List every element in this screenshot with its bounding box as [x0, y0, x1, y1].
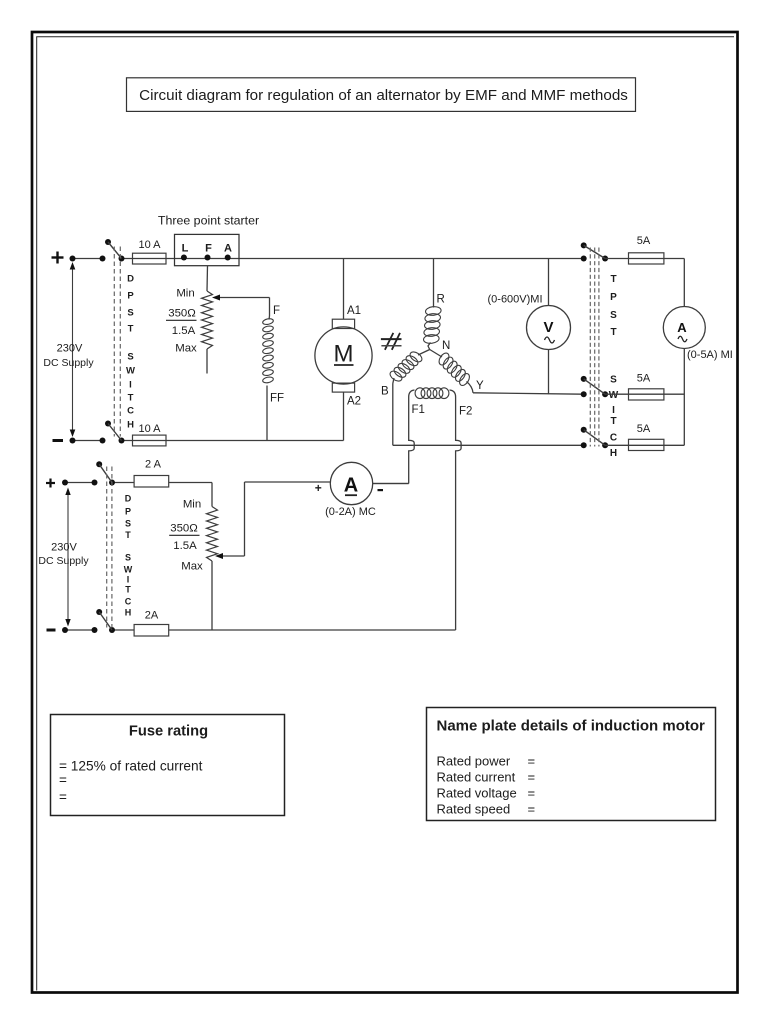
- svg-text:10 A: 10 A: [138, 239, 161, 251]
- svg-text:T: T: [610, 274, 616, 285]
- svg-text:(0-2A) MC: (0-2A) MC: [325, 506, 376, 518]
- svg-text:S: S: [125, 553, 131, 563]
- svg-text:W: W: [126, 366, 135, 377]
- svg-text:5A: 5A: [637, 373, 651, 385]
- svg-text:P: P: [610, 292, 617, 303]
- svg-text:W: W: [124, 565, 133, 575]
- svg-text:Rated speed: Rated speed: [437, 802, 511, 817]
- svg-text:Y: Y: [476, 380, 484, 392]
- svg-text:1.5A: 1.5A: [173, 540, 197, 552]
- svg-text:I: I: [127, 575, 130, 585]
- svg-text:+: +: [315, 481, 322, 495]
- svg-text:DC Supply: DC Supply: [38, 555, 89, 567]
- svg-text:230V: 230V: [51, 542, 77, 554]
- svg-text:V: V: [543, 319, 553, 336]
- svg-text:R: R: [437, 294, 445, 306]
- svg-text:S: S: [125, 519, 131, 529]
- svg-text:S: S: [610, 375, 617, 386]
- svg-text:Rated current: Rated current: [437, 770, 516, 785]
- svg-text:A: A: [677, 320, 687, 335]
- svg-text:W: W: [609, 390, 619, 401]
- svg-text:(0-600V)MI: (0-600V)MI: [488, 294, 543, 306]
- svg-text:F: F: [273, 305, 280, 317]
- svg-text:Rated power: Rated power: [437, 754, 511, 769]
- svg-text:H: H: [125, 608, 132, 618]
- svg-text:Min: Min: [176, 288, 194, 300]
- svg-text:Name plate details of inductio: Name plate details of induction motor: [437, 718, 706, 735]
- svg-text:H: H: [127, 420, 134, 431]
- svg-text:FF: FF: [270, 393, 284, 405]
- svg-text:N: N: [442, 340, 450, 352]
- svg-text:T: T: [128, 393, 134, 404]
- svg-text:350Ω: 350Ω: [168, 308, 196, 320]
- svg-text:T: T: [610, 327, 616, 338]
- svg-text:S: S: [127, 308, 133, 319]
- svg-text:5A: 5A: [637, 423, 651, 435]
- svg-text:C: C: [125, 597, 132, 607]
- svg-text:(0-5A) MI: (0-5A) MI: [687, 349, 733, 361]
- svg-text:T: T: [125, 585, 131, 595]
- svg-text:M: M: [334, 340, 354, 367]
- svg-text:D: D: [125, 494, 132, 504]
- svg-text:T: T: [125, 530, 131, 540]
- svg-text:Max: Max: [181, 561, 203, 573]
- svg-text:S: S: [127, 352, 133, 363]
- svg-text:D: D: [127, 274, 134, 285]
- svg-text:S: S: [610, 310, 617, 321]
- svg-text:=: =: [528, 770, 536, 785]
- svg-text:Circuit diagram for regulation: Circuit diagram for regulation of an alt…: [139, 87, 628, 104]
- svg-text:1.5A: 1.5A: [172, 325, 196, 337]
- svg-text:I: I: [129, 380, 132, 391]
- svg-text:F1: F1: [412, 404, 425, 416]
- svg-text:=: =: [528, 802, 536, 817]
- svg-text:A: A: [344, 475, 358, 497]
- svg-text:2A: 2A: [145, 610, 159, 622]
- svg-text:Three point starter: Three point starter: [158, 214, 259, 228]
- svg-text:T: T: [128, 324, 134, 335]
- svg-text:5A: 5A: [637, 235, 651, 247]
- svg-text:F2: F2: [459, 406, 472, 418]
- svg-text:H: H: [610, 448, 617, 459]
- svg-text:A2: A2: [347, 396, 361, 408]
- svg-text:A: A: [224, 243, 232, 255]
- svg-text:I: I: [612, 405, 615, 416]
- svg-text:A1: A1: [347, 305, 361, 317]
- svg-text:230V: 230V: [57, 343, 83, 355]
- svg-text:Min: Min: [183, 499, 201, 511]
- svg-text:DC Supply: DC Supply: [43, 357, 94, 369]
- svg-text:Max: Max: [175, 343, 197, 355]
- svg-text:=: =: [528, 786, 536, 801]
- svg-text:2 A: 2 A: [145, 459, 162, 471]
- svg-text:= 125% of rated current: = 125% of rated current: [59, 759, 203, 774]
- svg-text:C: C: [127, 406, 134, 417]
- svg-text:10 A: 10 A: [138, 423, 161, 435]
- svg-text:P: P: [125, 507, 131, 517]
- svg-text:Fuse rating: Fuse rating: [129, 724, 208, 740]
- svg-text:P: P: [127, 291, 134, 302]
- svg-text:C: C: [610, 433, 617, 444]
- svg-text:350Ω: 350Ω: [170, 523, 198, 535]
- svg-text:=: =: [528, 754, 536, 769]
- svg-text:F: F: [205, 243, 212, 255]
- svg-text:=: =: [59, 790, 67, 805]
- svg-text:=: =: [59, 773, 67, 788]
- svg-text:B: B: [381, 386, 389, 398]
- svg-text:L: L: [182, 243, 189, 255]
- svg-text:Rated voltage: Rated voltage: [437, 786, 517, 801]
- svg-text:T: T: [610, 416, 616, 427]
